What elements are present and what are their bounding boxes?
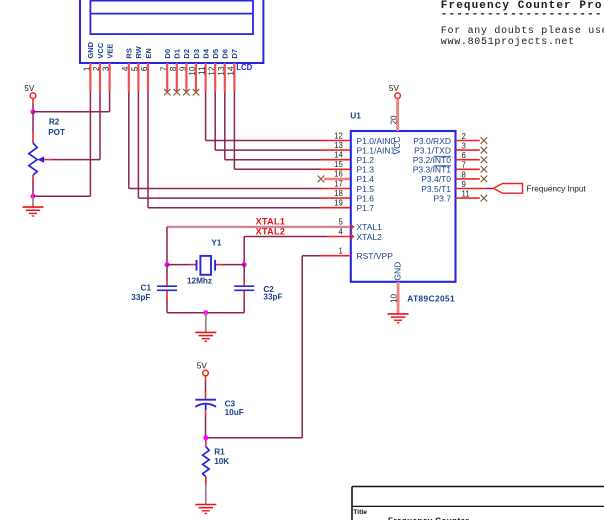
svg-text:P1.0/AIN0: P1.0/AIN0 — [357, 136, 396, 146]
LCD pin numbers 1-14 — [83, 66, 236, 76]
capacitor C1 — [157, 286, 177, 290]
wire D7 net: LCD pin 14 to U1 P1.3 — [234, 92, 350, 170]
wire RW net: LCD pin 5 to U1 P1.6 — [138, 92, 350, 199]
svg-text:14: 14 — [334, 151, 343, 160]
U1 pin 20 VCC stub — [396, 99, 399, 132]
svg-text:U1: U1 — [350, 110, 361, 120]
svg-text:XTAL1: XTAL1 — [357, 222, 383, 232]
wire crystal row right segment — [215, 264, 244, 266]
svg-text:Frequency Input: Frequency Input — [527, 184, 587, 193]
svg-text:6: 6 — [462, 151, 466, 160]
svg-text:19: 19 — [334, 199, 343, 208]
U1 XTAL2 clock pin chevron — [350, 234, 353, 239]
title block label Title — [353, 509, 367, 516]
no-connect X on LCD pins 7-10 (D0-D3) — [164, 89, 199, 96]
svg-text:18: 18 — [334, 189, 343, 198]
wire 5V to R2 top junction — [32, 104, 34, 112]
resistor R2 potentiometer — [29, 112, 44, 182]
svg-text:P1.4: P1.4 — [357, 174, 375, 184]
wire crystal right to C2 — [243, 265, 245, 286]
svg-text:EN: EN — [144, 48, 153, 58]
svg-text:11: 11 — [462, 190, 470, 199]
svg-text:VCC: VCC — [392, 137, 402, 155]
svg-text:17: 17 — [334, 179, 343, 188]
svg-text:33pF: 33pF — [263, 293, 282, 302]
U1 right unconnected pin stubs with X (pins 2,3,6,7,8,11) — [456, 137, 488, 201]
U1 part value AT89C2051 — [407, 294, 455, 304]
svg-text:P1.7: P1.7 — [357, 203, 375, 213]
Y1 value label 12Mhz — [187, 276, 212, 285]
power symbol 5V (above C3) — [197, 361, 209, 376]
svg-text:D4: D4 — [201, 48, 210, 58]
wire D5 net: LCD pin 12 to U1 P1.1 — [215, 92, 351, 151]
svg-text:LCD: LCD — [236, 63, 252, 72]
svg-text:9: 9 — [462, 180, 466, 189]
LCD module outer body — [80, 0, 263, 63]
note line: For any doubts please use — [441, 25, 604, 37]
U1 pin 10 number (rotated) — [390, 293, 399, 303]
svg-text:D5: D5 — [211, 49, 220, 59]
svg-text:10K: 10K — [214, 457, 229, 466]
svg-text:R2: R2 — [49, 118, 60, 127]
wire C2 to bottom rail — [243, 291, 245, 313]
svg-text:C1: C1 — [141, 283, 152, 292]
wire XTAL1 net: U1 pin 5 to crystal left — [167, 227, 350, 265]
C3 value label 10uF — [225, 408, 244, 417]
R1 reference label — [214, 447, 225, 456]
U1 pin 16 P1.4 unconnected stub — [318, 176, 351, 183]
wire GND net: junction to LCD pin 1 — [33, 92, 90, 197]
LCD pin names GND VCC VEE RS RW EN D0-D7 — [86, 41, 239, 58]
wire 5V to C3 — [205, 376, 207, 399]
svg-text:P3.5/T1: P3.5/T1 — [421, 184, 451, 194]
svg-text:2: 2 — [462, 132, 466, 141]
capacitor C2 — [234, 286, 254, 290]
junction R2 bottom — [31, 194, 36, 199]
R1 value label 10K — [214, 457, 229, 466]
svg-text:12Mhz: 12Mhz — [187, 276, 212, 285]
svg-text:---------------------: --------------------- — [441, 8, 603, 20]
note line: www.8051projects.net — [441, 36, 575, 48]
wire RST net: U1 pin 1 to C3/R1 junction — [206, 256, 351, 438]
svg-text:13: 13 — [334, 141, 343, 150]
svg-text:R1: R1 — [214, 447, 225, 456]
svg-text:5V: 5V — [197, 361, 208, 370]
svg-text:www.8051projects.net: www.8051projects.net — [441, 36, 575, 48]
title block frame — [352, 487, 604, 520]
wire crystal left to C1 — [166, 265, 168, 286]
wire R2 bottom to ground junction — [32, 181, 34, 196]
wire C1 to bottom rail — [166, 291, 168, 313]
C1 value label 33pF — [131, 293, 150, 302]
svg-text:D3: D3 — [192, 49, 201, 59]
op-amp n/a: IC U1 AT89C2051 body — [351, 131, 456, 282]
svg-text:XTAL1: XTAL1 — [256, 217, 286, 227]
R2 value label POT — [48, 128, 65, 137]
C2 value label 33pF — [263, 293, 282, 302]
LCD pin stubs (pins 1-14) — [90, 63, 234, 92]
U1 XTAL1 clock pin chevron — [350, 225, 353, 230]
note divider dashes — [441, 8, 603, 20]
title block text Frequency Counter — [388, 516, 469, 520]
C1 reference label — [141, 283, 152, 292]
svg-text:16: 16 — [334, 170, 343, 179]
U1 pin 20 number (rotated) — [389, 115, 398, 125]
svg-text:P3.4/T0: P3.4/T0 — [421, 174, 451, 184]
ground symbol (below U1) — [388, 314, 409, 323]
svg-text:Title: Title — [353, 509, 367, 516]
U1 rotated pin name VCC — [392, 137, 402, 155]
svg-text:D7: D7 — [230, 49, 239, 59]
svg-text:Y1: Y1 — [211, 238, 221, 247]
svg-text:P1.5: P1.5 — [357, 184, 375, 194]
U1 left pin names — [357, 136, 396, 261]
U1 pin 10 GND stub — [397, 282, 400, 314]
svg-text:P3.0/RXD: P3.0/RXD — [413, 136, 451, 146]
U1 left pin numbers — [334, 131, 343, 255]
svg-text:VEE: VEE — [105, 44, 114, 59]
wire wiper net: R2 wiper to LCD pin 2 — [44, 92, 100, 160]
U1 right pin names — [413, 136, 452, 204]
wire P3.5/T1 to Frequency Input port — [456, 188, 494, 190]
power symbol 5V (left, R2 top) — [24, 84, 36, 104]
C2 reference label — [263, 285, 274, 294]
R2 reference label — [49, 118, 60, 127]
svg-text:D0: D0 — [163, 49, 172, 59]
ground symbol (crystal) — [195, 313, 216, 342]
U1 right pin numbers — [462, 132, 470, 199]
svg-text:RW: RW — [134, 45, 143, 58]
junction crystal right — [242, 262, 247, 267]
svg-text:P1.3: P1.3 — [357, 165, 375, 175]
svg-text:D1: D1 — [173, 49, 182, 59]
wire XTAL2 net: U1 pin 4 to crystal right — [244, 237, 350, 265]
power symbol 5V (above U1 VCC) — [389, 84, 401, 99]
svg-text:AT89C2051: AT89C2051 — [407, 294, 455, 304]
svg-text:XTAL2: XTAL2 — [256, 227, 286, 237]
junction crystal ground rail — [203, 310, 208, 315]
crystal Y1 — [197, 256, 216, 275]
svg-text:P3.7: P3.7 — [434, 193, 452, 203]
port symbol Frequency Input — [493, 184, 522, 194]
svg-text:VCC: VCC — [96, 42, 105, 58]
C3 reference label — [225, 400, 236, 409]
svg-text:For any doubts please use: For any doubts please use — [441, 25, 604, 37]
svg-text:3: 3 — [462, 142, 466, 151]
svg-text:5V: 5V — [24, 84, 35, 93]
svg-text:D2: D2 — [182, 49, 191, 59]
wire crystal row left segment — [167, 264, 197, 266]
port label Frequency Input — [527, 184, 587, 193]
svg-text:P1.2: P1.2 — [357, 155, 375, 165]
wire C3 to junction — [205, 410, 207, 438]
svg-text:P1.1/AIN1: P1.1/AIN1 — [357, 145, 396, 155]
net label XTAL2 — [256, 227, 286, 237]
wire D6 net: LCD pin 13 to U1 P1.2 — [225, 92, 351, 160]
svg-text:D6: D6 — [221, 49, 230, 59]
U1 reference label — [350, 110, 361, 120]
net label XTAL1 — [256, 217, 286, 227]
wire D4 net: LCD pin 11 to U1 P1.0 — [206, 92, 351, 141]
svg-text:12: 12 — [334, 131, 343, 140]
LCD display window — [90, 1, 253, 35]
ground symbol (below R1) — [195, 485, 216, 513]
Y1 reference label — [211, 238, 221, 247]
capacitor C3 (polarized) — [195, 400, 216, 411]
ground symbol (below R2) — [23, 196, 44, 216]
svg-text:POT: POT — [48, 128, 65, 137]
svg-text:RST/VPP: RST/VPP — [357, 251, 394, 261]
svg-text:GND: GND — [393, 262, 403, 281]
junction C3/R1/RST — [203, 435, 208, 440]
note heading Frequency Counter Pro — [441, 0, 603, 12]
svg-text:15: 15 — [334, 160, 343, 169]
wire VEE net: junction to LCD pin 3 — [33, 92, 110, 112]
U1 rotated pin name GND — [393, 262, 403, 281]
svg-text:4: 4 — [338, 227, 343, 236]
svg-text:8: 8 — [462, 170, 466, 179]
svg-text:7: 7 — [462, 161, 466, 170]
svg-text:5: 5 — [338, 218, 343, 227]
svg-text:P1.6: P1.6 — [357, 193, 375, 203]
junction crystal left — [165, 262, 170, 267]
svg-text:33pF: 33pF — [131, 293, 150, 302]
wire crystal ground rail — [167, 312, 244, 314]
wire EN net: LCD pin 6 to U1 P1.7 — [148, 92, 351, 208]
svg-text:GND: GND — [86, 41, 95, 58]
wire RS net: LCD pin 4 to U1 P1.5 — [129, 92, 351, 189]
svg-text:XTAL2: XTAL2 — [357, 232, 383, 242]
svg-text:5V: 5V — [389, 84, 400, 93]
LCD reference label — [236, 63, 252, 72]
svg-text:Frequency Counter: Frequency Counter — [388, 516, 469, 520]
svg-text:P3.1/TXD: P3.1/TXD — [414, 145, 451, 155]
svg-text:1: 1 — [338, 247, 342, 256]
junction R2 top — [31, 109, 36, 114]
svg-text:10uF: 10uF — [225, 408, 244, 417]
resistor R1 — [203, 440, 210, 485]
svg-text:RS: RS — [125, 48, 134, 58]
